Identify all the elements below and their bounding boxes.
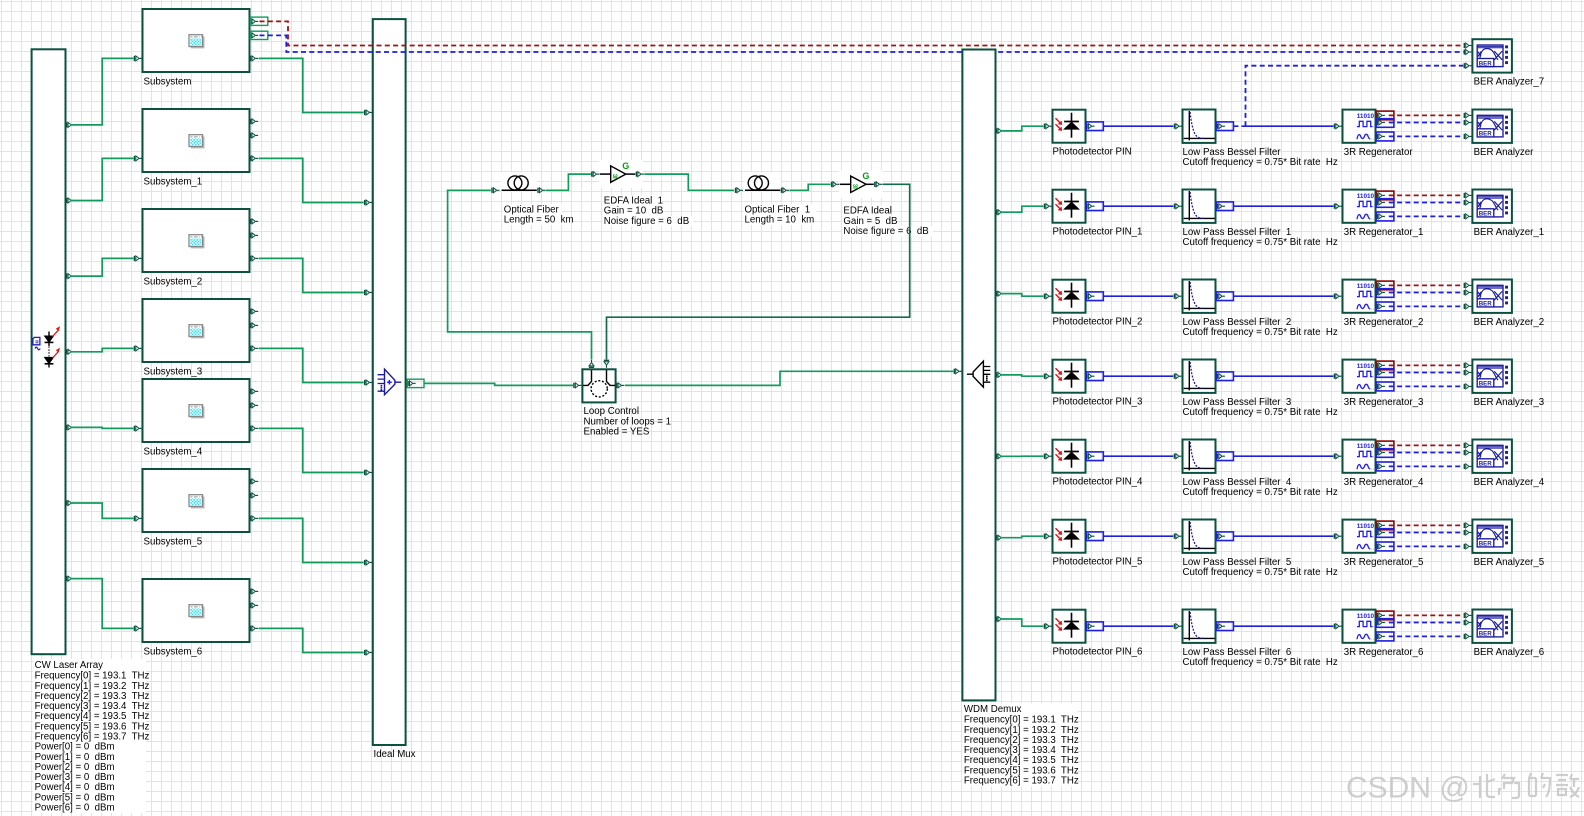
svg-text:BER Analyzer: BER Analyzer — [1474, 147, 1535, 158]
svg-text:WDM Demux: WDM Demux — [964, 704, 1022, 715]
wire Optical Fiber to EDFA Ideal 1 — [546, 174, 591, 190]
3R Regenerator_6 input port — [1334, 624, 1342, 629]
wire Low Pass Bessel Filter 4 to 3R Regenerator_4 (electrical) — [1234, 455, 1334, 457]
Optical Fiber 1 input port — [735, 188, 743, 193]
svg-text:Ideal Mux: Ideal Mux — [374, 749, 416, 760]
Ideal Mux input port 3 — [364, 290, 372, 295]
Photodetector PIN_6 input port — [1044, 624, 1052, 629]
svg-text:Noise figure = 6 dB: Noise figure = 6 dB — [843, 226, 928, 237]
Low Pass Bessel Filter 5 input port — [1174, 534, 1182, 539]
wire CW Laser Array port 1 to Subsystem input — [70, 58, 133, 125]
WDM Demux output port 1 — [996, 128, 1004, 133]
amplifier EDFA Ideal 1 — [599, 160, 643, 188]
BER Analyzer input port 1 — [1464, 113, 1472, 118]
Low Pass Bessel Filter 4 output stub box — [1216, 452, 1233, 461]
wire Photodetector PIN_2 to Low Pass Bessel Filter 2 (electrical) — [1103, 295, 1173, 297]
3R Regenerator_2 output port 2 — [1377, 290, 1385, 295]
BER analyzer BER Analyzer block — [1472, 110, 1512, 143]
WDM Demux input port — [954, 369, 962, 374]
Subsystem_6 output port 1 (stub) — [250, 589, 258, 594]
svg-text:Cutoff frequency = 0.75* Bit r: Cutoff frequency = 0.75* Bit rate Hz — [1183, 487, 1338, 498]
Photodetector PIN_4 output stub box — [1086, 452, 1103, 461]
svg-text:BER: BER — [1479, 131, 1493, 138]
BER Analyzer_2 input port 2 — [1464, 290, 1472, 295]
Photodetector PIN_6 output stub box — [1086, 622, 1103, 631]
Photodetector PIN output stub box — [1086, 122, 1103, 131]
Optical Fiber output port — [537, 188, 545, 193]
3R Regenerator_1 output port 2 — [1377, 200, 1385, 205]
Low Pass Bessel Filter 5 output stub box — [1216, 532, 1233, 541]
CW Laser Array block — [32, 49, 66, 654]
3R Regenerator_5 output stub box 3 — [1376, 542, 1394, 551]
svg-text:Cutoff frequency = 0.75* Bit r: Cutoff frequency = 0.75* Bit rate Hz — [1183, 237, 1338, 248]
svg-text:Power[6] = 0 dBm: Power[6] = 0 dBm — [35, 803, 115, 814]
svg-text:Frequency[6] = 193.7 THz: Frequency[6] = 193.7 THz — [964, 776, 1079, 787]
3R Regenerator_6 output port 3 — [1377, 634, 1385, 639]
BER analyzer BER Analyzer_3 block — [1472, 360, 1512, 393]
Photodetector PIN_3 output port — [1086, 374, 1094, 379]
red dashed wire 3R Regenerator_1 out1 to BER Analyzer_1 in1 — [1389, 194, 1464, 196]
svg-text:Subsystem_4: Subsystem_4 — [144, 447, 203, 458]
blue dashed wire 3R Regenerator_5 out2 to BER Analyzer_5 in2 — [1389, 532, 1464, 534]
wire Photodetector PIN_5 to Low Pass Bessel Filter 5 (electrical) — [1103, 535, 1173, 537]
wire CW Laser Array port 2 to Subsystem_1 input — [70, 158, 133, 200]
label Optical Fiber 1 — [744, 204, 817, 215]
wire WDM Demux port 3 to Photodetector PIN_2 — [1000, 294, 1043, 297]
regenerator 3R Regenerator_5 block — [1343, 520, 1376, 553]
value Length = 50 km — [503, 215, 571, 226]
wire Photodetector PIN_1 to Low Pass Bessel Filter 1 (electrical) — [1103, 205, 1173, 207]
wire Subsystem_4 output to Ideal Mux input 5 — [259, 428, 364, 472]
Subsystem output stub box 2 — [250, 31, 267, 39]
svg-text:G: G — [862, 171, 869, 181]
value Noise figure = 6 dB — [603, 216, 694, 227]
wire Ideal Mux output to Loop Control input — [424, 383, 573, 385]
regenerator 3R Regenerator_3 block — [1343, 360, 1376, 393]
svg-text:Photodetector PIN_5: Photodetector PIN_5 — [1053, 557, 1143, 568]
Subsystem_2 output port 3 — [250, 256, 258, 261]
red dashed wire Subsystem port1 to BER Analyzer_7 input 1 — [260, 21, 1464, 45]
3R Regenerator output stub box 1 (red) — [1376, 111, 1394, 120]
svg-text:Photodetector PIN_1: Photodetector PIN_1 — [1053, 227, 1143, 238]
svg-text:Enabled = YES: Enabled = YES — [584, 427, 650, 438]
3R Regenerator_6 output stub box 1 (red) — [1376, 611, 1394, 620]
wire WDM Demux port 5 to Photodetector PIN_4 — [1000, 455, 1043, 457]
blue dashed wire junction up to BER Analyzer_7 input 3 — [1246, 66, 1464, 127]
wire Subsystem_6 output to Ideal Mux input 7 — [259, 628, 364, 652]
svg-text:Subsystem_2: Subsystem_2 — [144, 277, 203, 288]
subsystem Subsystem_5 block — [143, 469, 250, 532]
BER Analyzer_1 input port 3 — [1464, 214, 1472, 219]
svg-text:11010..: 11010.. — [1357, 613, 1378, 620]
Subsystem_3 input port — [134, 346, 142, 351]
svg-text:11010..: 11010.. — [1357, 193, 1378, 200]
label EDFA Ideal — [842, 206, 887, 217]
svg-text:3R Regenerator: 3R Regenerator — [1344, 147, 1414, 158]
3R Regenerator_3 output port 3 — [1377, 384, 1385, 389]
photodetector Photodetector PIN_6 block — [1053, 610, 1086, 643]
Low Pass Bessel Filter 6 output stub box — [1216, 622, 1233, 631]
subsystem Subsystem_2 block — [143, 209, 250, 272]
label WDM Demux — [962, 703, 1077, 786]
BER Analyzer_1 input port 2 — [1464, 200, 1472, 205]
svg-text:Cutoff frequency = 0.75* Bit r: Cutoff frequency = 0.75* Bit rate Hz — [1183, 157, 1338, 168]
BER Analyzer_7 input port 3 — [1464, 63, 1472, 68]
Low Pass Bessel Filter 6 output port — [1217, 624, 1225, 629]
svg-text:Cutoff frequency = 0.75* Bit r: Cutoff frequency = 0.75* Bit rate Hz — [1183, 407, 1338, 418]
Subsystem_6 input port — [134, 626, 142, 631]
3R Regenerator_6 output stub box 2 — [1376, 619, 1394, 628]
Optical Fiber 1 component — [745, 173, 782, 192]
CW Laser Array icon — [33, 327, 59, 367]
Ideal Mux block — [373, 19, 406, 745]
svg-text:BER: BER — [1479, 211, 1493, 218]
blue dashed wire 3R Regenerator_6 out2 to BER Analyzer_6 in2 — [1389, 622, 1464, 624]
Loop Control input port left — [573, 383, 581, 388]
wire Low Pass Bessel Filter 5 to 3R Regenerator_5 (electrical) — [1234, 535, 1334, 537]
Subsystem_1 output port 1 (stub) — [250, 119, 258, 124]
BER Analyzer_7 input port 1 — [1464, 43, 1472, 48]
CW Laser Array output port 1 — [66, 122, 74, 127]
svg-text:3R Regenerator_4: 3R Regenerator_4 — [1344, 477, 1424, 488]
Ideal Mux input port 1 — [364, 110, 372, 115]
wire Low Pass Bessel Filter 3 to 3R Regenerator_3 (electrical) — [1234, 375, 1334, 377]
3R Regenerator_5 output port 2 — [1377, 530, 1385, 535]
subsystem Subsystem_6 block — [143, 579, 250, 642]
BER Analyzer_7 input port 2 — [1464, 49, 1472, 54]
wire WDM Demux port 2 to Photodetector PIN_1 — [1000, 206, 1043, 212]
svg-text:Subsystem_6: Subsystem_6 — [144, 647, 203, 658]
3R Regenerator_1 output stub box 2 — [1376, 199, 1394, 208]
watermark CSDN — [1346, 772, 1470, 805]
blue dashed wire 3R Regenerator_1 out3 to BER Analyzer_1 in3 — [1389, 215, 1464, 217]
svg-text:Photodetector PIN_3: Photodetector PIN_3 — [1053, 397, 1143, 408]
Subsystem_3 output port 1 (stub) — [250, 309, 258, 314]
svg-text:Cutoff frequency = 0.75* Bit r: Cutoff frequency = 0.75* Bit rate Hz — [1183, 327, 1338, 338]
blue dashed wire 3R Regenerator_1 out2 to BER Analyzer_1 in2 — [1389, 202, 1464, 204]
label EDFA Ideal 1 — [603, 195, 662, 206]
CW Laser Array output port 5 — [66, 425, 74, 430]
subsystem Subsystem_3 block — [143, 299, 250, 362]
photodetector Photodetector PIN block — [1053, 110, 1086, 143]
BER Analyzer_5 input port 1 — [1464, 523, 1472, 528]
CW Laser Array output port 2 — [66, 198, 74, 203]
value Gain = 10 dB — [603, 206, 662, 217]
Optical Fiber component — [501, 173, 538, 192]
Subsystem_6 output port 2 (stub) — [250, 603, 258, 608]
Low Pass Bessel Filter 4 output port — [1217, 454, 1225, 459]
svg-text:Photodetector PIN_4: Photodetector PIN_4 — [1053, 477, 1144, 488]
EDFA Ideal output port — [874, 182, 882, 187]
Photodetector PIN output port — [1086, 124, 1094, 129]
svg-text:11010..: 11010.. — [1357, 363, 1378, 370]
svg-text:Photodetector PIN_2: Photodetector PIN_2 — [1053, 317, 1143, 328]
filter Low Pass Bessel Filter 2 block — [1183, 280, 1216, 313]
svg-text:Length = 50 km: Length = 50 km — [504, 215, 574, 226]
wire Low Pass Bessel Filter to 3R Regenerator (dashed then solid) with junction to BER Analyzer_7 — [1234, 125, 1246, 127]
label Optical Fiber — [503, 204, 562, 215]
Subsystem_3 output port 2 (stub) — [250, 323, 258, 328]
wire CW Laser Array port 7 to Subsystem_6 input — [70, 579, 133, 629]
3R Regenerator_6 output port 1 — [1377, 613, 1385, 618]
BER Analyzer_6 input port 1 — [1464, 613, 1472, 618]
wire WDM Demux port 4 to Photodetector PIN_3 — [1000, 375, 1043, 376]
3R Regenerator_1 output port 1 — [1377, 193, 1385, 198]
EDFA Ideal 1 output port — [636, 172, 644, 177]
3R Regenerator_2 output port 3 — [1377, 304, 1385, 309]
3R Regenerator_3 input port — [1334, 374, 1342, 379]
CW Laser Array output port 6 — [66, 500, 74, 505]
Subsystem_1 output port 3 — [250, 156, 258, 161]
wire WDM Demux port 1 to Photodetector PIN — [1000, 126, 1043, 131]
wire Subsystem output to Ideal Mux input 1 — [259, 58, 364, 112]
Subsystem_6 output port 3 — [250, 626, 258, 631]
EDFA Ideal input port — [831, 182, 839, 187]
3R Regenerator_6 output stub box 3 — [1376, 632, 1394, 641]
3R Regenerator_3 output stub box 1 (red) — [1376, 361, 1394, 370]
svg-text:BER: BER — [1479, 541, 1493, 548]
Photodetector PIN_5 input port — [1044, 534, 1052, 539]
3R Regenerator_5 output stub box 2 — [1376, 529, 1394, 538]
svg-text:Cutoff frequency = 0.75* Bit r: Cutoff frequency = 0.75* Bit rate Hz — [1183, 567, 1338, 578]
Optical Fiber input port — [491, 188, 499, 193]
3R Regenerator output port 3 — [1377, 134, 1385, 139]
svg-text:BER Analyzer_5: BER Analyzer_5 — [1474, 557, 1545, 568]
wire Photodetector PIN_3 to Low Pass Bessel Filter 3 (electrical) — [1103, 375, 1173, 377]
BER Analyzer input port 2 — [1464, 120, 1472, 125]
blue dashed wire Subsystem port2 to BER Analyzer_7 input 2 — [260, 35, 1464, 52]
subsystem Subsystem_4 block — [143, 379, 250, 442]
Subsystem_1 input port — [134, 156, 142, 161]
BER Analyzer_3 input port 2 — [1464, 370, 1472, 375]
Optical Fiber 1 output port — [781, 188, 789, 193]
Photodetector PIN_5 output port — [1086, 534, 1094, 539]
Ideal Mux output stub box — [407, 379, 424, 387]
blue dashed wire 3R Regenerator out3 to BER Analyzer in3 — [1389, 135, 1464, 137]
red dashed wire 3R Regenerator_2 out1 to BER Analyzer_2 in1 — [1389, 284, 1464, 286]
Subsystem output port 3 — [250, 56, 258, 61]
3R Regenerator_3 output port 2 — [1377, 370, 1385, 375]
svg-text:11010..: 11010.. — [1357, 283, 1378, 290]
3R Regenerator output stub box 2 — [1376, 119, 1394, 128]
BER analyzer BER Analyzer_7 block — [1472, 39, 1512, 72]
3R Regenerator_4 output stub box 2 — [1376, 449, 1394, 458]
3R Regenerator_5 output port 3 — [1377, 544, 1385, 549]
filter Low Pass Bessel Filter 5 block — [1183, 520, 1216, 553]
photodetector Photodetector PIN_2 block — [1053, 280, 1086, 313]
EDFA Ideal 1 input port — [591, 172, 599, 177]
svg-text:Noise figure = 6 dB: Noise figure = 6 dB — [604, 216, 689, 227]
3R Regenerator_2 input port — [1334, 294, 1342, 299]
Subsystem_4 output port 3 — [250, 426, 258, 431]
BER Analyzer_2 input port 3 — [1464, 304, 1472, 309]
3R Regenerator_2 output port 1 — [1377, 283, 1385, 288]
wire Subsystem_3 output to Ideal Mux input 4 — [259, 348, 364, 382]
svg-text:BER: BER — [1479, 381, 1493, 388]
BER analyzer BER Analyzer_2 block — [1472, 280, 1512, 313]
Ideal Mux output port — [407, 381, 415, 386]
Loop Control output port right — [616, 383, 624, 388]
svg-text:11010..: 11010.. — [1357, 523, 1378, 530]
BER analyzer BER Analyzer_5 block — [1472, 520, 1512, 553]
3R Regenerator_6 output port 2 — [1377, 620, 1385, 625]
red dashed wire 3R Regenerator_4 out1 to BER Analyzer_4 in1 — [1389, 444, 1464, 446]
regenerator 3R Regenerator_6 block — [1343, 610, 1376, 643]
svg-text:Photodetector PIN: Photodetector PIN — [1053, 147, 1132, 158]
blue dashed wire 3R Regenerator_2 out3 to BER Analyzer_2 in3 — [1389, 305, 1464, 307]
filter Low Pass Bessel Filter 6 block — [1183, 610, 1216, 643]
svg-text:Cutoff frequency = 0.75* Bit r: Cutoff frequency = 0.75* Bit rate Hz — [1183, 657, 1338, 668]
wire Photodetector PIN_6 to Low Pass Bessel Filter 6 (electrical) — [1103, 625, 1173, 627]
Subsystem output port 2 (stub) — [250, 33, 258, 38]
blue dashed wire 3R Regenerator_3 out2 to BER Analyzer_3 in2 — [1389, 372, 1464, 374]
regenerator 3R Regenerator_4 block — [1343, 440, 1376, 473]
WDM Demux icon — [967, 361, 990, 387]
3R Regenerator output port 1 — [1377, 113, 1385, 118]
svg-text:3R Regenerator_6: 3R Regenerator_6 — [1344, 647, 1424, 658]
Photodetector PIN_6 output port — [1086, 624, 1094, 629]
wire CW Laser Array port 3 to Subsystem_2 input — [70, 258, 133, 276]
3R Regenerator_2 output stub box 2 — [1376, 289, 1394, 298]
BER Analyzer_4 input port 1 — [1464, 443, 1472, 448]
Low Pass Bessel Filter 6 input port — [1174, 624, 1182, 629]
3R Regenerator_1 input port — [1334, 204, 1342, 209]
wire Low Pass Bessel Filter 6 to 3R Regenerator_6 (electrical) — [1234, 625, 1334, 627]
svg-text:3R Regenerator_5: 3R Regenerator_5 — [1344, 557, 1424, 568]
svg-text:BER Analyzer_2: BER Analyzer_2 — [1474, 317, 1545, 328]
Low Pass Bessel Filter output port — [1217, 124, 1225, 129]
Loop Control block — [582, 369, 615, 402]
svg-text:BER: BER — [1479, 301, 1493, 308]
3R Regenerator_2 output stub box 3 — [1376, 302, 1394, 311]
svg-text:11010..: 11010.. — [1357, 443, 1378, 450]
photodetector Photodetector PIN_1 block — [1053, 190, 1086, 223]
Low Pass Bessel Filter 1 output port — [1217, 204, 1225, 209]
Subsystem_5 output port 1 (stub) — [250, 479, 258, 484]
svg-text:BER Analyzer_3: BER Analyzer_3 — [1474, 397, 1545, 408]
Subsystem_5 input port — [134, 516, 142, 521]
Subsystem output stub box 1 — [250, 17, 267, 25]
red dashed wire 3R Regenerator_3 out1 to BER Analyzer_3 in1 — [1389, 364, 1464, 366]
blue dashed wire 3R Regenerator_2 out2 to BER Analyzer_2 in2 — [1389, 292, 1464, 294]
3R Regenerator_4 output port 2 — [1377, 450, 1385, 455]
wire Loop Control loop-out up to Optical Fiber input — [448, 190, 592, 359]
WDM Demux output port 3 — [996, 291, 1004, 296]
BER Analyzer_2 input port 1 — [1464, 283, 1472, 288]
3R Regenerator_4 input port — [1334, 454, 1342, 459]
3R Regenerator output stub box 3 — [1376, 132, 1394, 141]
regenerator 3R Regenerator_1 block — [1343, 190, 1376, 223]
blue dashed wire 3R Regenerator out2 to BER Analyzer in2 — [1389, 122, 1464, 124]
wire WDM Demux port 7 to Photodetector PIN_6 — [1000, 619, 1043, 626]
Low Pass Bessel Filter 1 input port — [1174, 204, 1182, 209]
BER Analyzer_1 input port 1 — [1464, 193, 1472, 198]
Low Pass Bessel Filter 2 output port — [1217, 294, 1225, 299]
Photodetector PIN input port — [1044, 124, 1052, 129]
3R Regenerator_4 output port 1 — [1377, 443, 1385, 448]
Subsystem_2 output port 2 (stub) — [250, 233, 258, 238]
wire CW Laser Array port 4 to Subsystem_3 input — [70, 348, 133, 351]
Subsystem_4 input port — [134, 426, 142, 431]
svg-text:CSDN @: CSDN @ — [1346, 772, 1470, 805]
wire Subsystem_5 output to Ideal Mux input 6 — [259, 518, 364, 562]
Photodetector PIN_2 output stub box — [1086, 292, 1103, 301]
filter Low Pass Bessel Filter 3 block — [1183, 360, 1216, 393]
subsystem Subsystem block — [143, 9, 250, 72]
BER analyzer BER Analyzer_6 block — [1472, 610, 1512, 643]
photodetector Photodetector PIN_3 block — [1053, 360, 1086, 393]
value Gain = 5 dB — [842, 216, 897, 227]
wire EDFA Ideal back to Loop Control loop-in — [607, 184, 910, 359]
value Noise figure = 6 dB — [842, 226, 933, 237]
wire Subsystem_1 output to Ideal Mux input 2 — [259, 158, 364, 202]
blue dashed wire 3R Regenerator_4 out2 to BER Analyzer_4 in2 — [1389, 452, 1464, 454]
blue dashed wire 3R Regenerator_3 out3 to BER Analyzer_3 in3 — [1389, 385, 1464, 387]
3R Regenerator_2 output stub box 1 (red) — [1376, 281, 1394, 290]
svg-text:Subsystem_3: Subsystem_3 — [144, 367, 203, 378]
svg-text:Photodetector PIN_6: Photodetector PIN_6 — [1053, 647, 1143, 658]
svg-text:11010..: 11010.. — [1357, 113, 1378, 120]
WDM Demux output port 6 — [996, 535, 1004, 540]
svg-text:Subsystem: Subsystem — [144, 77, 192, 88]
WDM Demux block — [962, 50, 995, 701]
CW Laser Array output port 4 — [66, 349, 74, 354]
Subsystem output port 1 (stub) — [250, 19, 258, 24]
3R Regenerator_3 output stub box 2 — [1376, 369, 1394, 378]
Low Pass Bessel Filter 2 output stub box — [1216, 292, 1233, 301]
red dashed wire 3R Regenerator_5 out1 to BER Analyzer_5 in1 — [1389, 524, 1464, 526]
svg-text:Subsystem_1: Subsystem_1 — [144, 177, 203, 188]
wire Loop Control output to WDM Demux input — [625, 371, 953, 385]
Ideal Mux icon — [378, 369, 402, 395]
blue dashed wire 3R Regenerator_5 out3 to BER Analyzer_5 in3 — [1389, 545, 1464, 547]
photodetector Photodetector PIN_5 block — [1053, 520, 1086, 553]
amplifier EDFA Ideal — [839, 170, 883, 198]
BER Analyzer_5 input port 2 — [1464, 530, 1472, 535]
Ideal Mux input port 5 — [364, 470, 372, 475]
label CW Laser Array — [33, 659, 146, 813]
3R Regenerator_3 output port 1 — [1377, 363, 1385, 368]
Subsystem_4 output port 1 (stub) — [250, 389, 258, 394]
3R Regenerator output port 2 — [1377, 120, 1385, 125]
Subsystem_1 output port 2 (stub) — [250, 133, 258, 138]
Low Pass Bessel Filter 3 output port — [1217, 374, 1225, 379]
3R Regenerator_1 output stub box 1 (red) — [1376, 191, 1394, 200]
regenerator 3R Regenerator block — [1343, 110, 1376, 143]
Ideal Mux input port 7 — [364, 650, 372, 655]
Ideal Mux input port 4 — [364, 380, 372, 385]
wire Subsystem_2 output to Ideal Mux input 3 — [259, 258, 364, 292]
Subsystem_2 output port 1 (stub) — [250, 219, 258, 224]
CW Laser Array output port 3 — [66, 274, 74, 279]
Subsystem input port — [134, 56, 142, 61]
Photodetector PIN_5 output stub box — [1086, 532, 1103, 541]
Ideal Mux input port 2 — [364, 200, 372, 205]
blue dashed wire 3R Regenerator_6 out3 to BER Analyzer_6 in3 — [1389, 635, 1464, 637]
Photodetector PIN_1 input port — [1044, 204, 1052, 209]
Photodetector PIN_2 output port — [1086, 294, 1094, 299]
value Length = 10 km — [744, 215, 812, 226]
WDM Demux output port 5 — [996, 454, 1004, 459]
svg-text:Length = 10 km: Length = 10 km — [745, 215, 815, 226]
subsystem Subsystem_1 block — [143, 109, 250, 172]
Loop Control loop input port top-right — [604, 360, 609, 368]
BER Analyzer input port 3 — [1464, 134, 1472, 139]
svg-text:BER: BER — [1479, 60, 1493, 67]
svg-text:BER: BER — [1479, 631, 1493, 638]
Ideal Mux input port 6 — [364, 560, 372, 565]
Photodetector PIN_4 output port — [1086, 454, 1094, 459]
